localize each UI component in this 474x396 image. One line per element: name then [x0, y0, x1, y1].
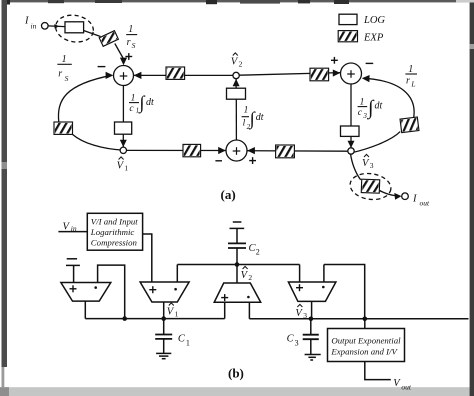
- svg-text:EXP: EXP: [363, 33, 384, 44]
- svg-text:out: out: [401, 383, 412, 392]
- svg-text:1: 1: [360, 97, 365, 107]
- svg-text:in: in: [31, 22, 37, 31]
- svg-text:S: S: [65, 74, 69, 83]
- svg-text:2: 2: [239, 59, 243, 68]
- svg-text:Logarithmic: Logarithmic: [90, 227, 135, 237]
- svg-text:1: 1: [408, 64, 413, 75]
- svg-text:1: 1: [124, 163, 128, 172]
- svg-text:C: C: [178, 334, 186, 345]
- svg-text:dt: dt: [146, 97, 154, 108]
- svg-text:l: l: [243, 118, 246, 128]
- svg-text:Output Exponential: Output Exponential: [331, 336, 401, 346]
- svg-text:I: I: [24, 16, 29, 27]
- svg-text:dt: dt: [256, 112, 264, 123]
- svg-text:S: S: [132, 41, 136, 50]
- svg-text:in: in: [71, 224, 77, 233]
- svg-text:1: 1: [186, 339, 190, 348]
- svg-text:L: L: [410, 80, 415, 89]
- svg-text:1: 1: [128, 24, 133, 35]
- svg-text:LOG: LOG: [363, 15, 385, 26]
- svg-text:Expansion and I/V: Expansion and I/V: [330, 346, 398, 356]
- svg-text:∫: ∫: [139, 94, 146, 114]
- svg-text:3: 3: [362, 112, 367, 120]
- svg-text:3: 3: [295, 339, 299, 348]
- svg-text:C: C: [287, 334, 295, 345]
- svg-text:3: 3: [303, 311, 307, 320]
- svg-text:2: 2: [256, 248, 260, 257]
- svg-text:Compression: Compression: [91, 238, 138, 248]
- svg-text:r: r: [406, 76, 410, 87]
- svg-text:1: 1: [244, 106, 249, 116]
- svg-text:1: 1: [62, 54, 67, 65]
- svg-text:I: I: [412, 194, 417, 205]
- svg-text:1: 1: [131, 93, 136, 103]
- svg-text:1: 1: [175, 309, 179, 318]
- svg-text:V/I and Input: V/I and Input: [91, 217, 138, 227]
- svg-text:3: 3: [370, 161, 374, 170]
- svg-text:dt: dt: [375, 101, 383, 112]
- svg-text:∫: ∫: [249, 109, 256, 129]
- svg-text:r: r: [58, 69, 62, 80]
- svg-text:r: r: [127, 37, 131, 48]
- svg-text:out: out: [420, 199, 431, 208]
- svg-text:(a): (a): [221, 187, 236, 202]
- svg-text:2: 2: [248, 273, 252, 282]
- svg-text:(b): (b): [228, 366, 244, 381]
